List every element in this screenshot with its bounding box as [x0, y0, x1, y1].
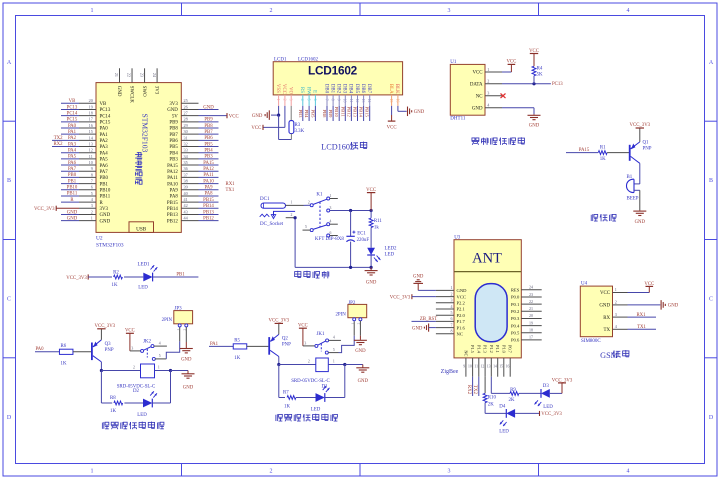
- dc socket pin 2: [286, 217, 295, 219]
- power port VCC at dht: [508, 63, 516, 65]
- svg-text:PA2: PA2: [100, 139, 109, 144]
- svg-text:P2.2: P2.2: [457, 301, 466, 306]
- svg-text:13: 13: [89, 141, 93, 146]
- svg-text:NC: NC: [476, 95, 483, 100]
- resistor R8 1K: [114, 401, 123, 405]
- svg-text:P2.0: P2.0: [457, 313, 466, 318]
- svg-text:18: 18: [529, 328, 533, 333]
- svg-text:STM32F103: STM32F103: [96, 242, 124, 248]
- wire JP3 pin2 to gnd: [185, 327, 187, 342]
- svg-text:PB0: PB0: [100, 176, 109, 181]
- wire gsm TX to TX1: [628, 328, 657, 330]
- zigbee U3 pin 11 (P1.4) bottom: [478, 358, 480, 377]
- led D3: [541, 389, 550, 398]
- svg-text:LCD1: LCD1: [274, 57, 287, 62]
- mcu U2 pin 13 (PA3) wire + net label PA3: [79, 146, 96, 148]
- wire TX2 zigbee pin11: [478, 377, 480, 396]
- relay D1 SRD-05VDC-SL-C coil: [316, 358, 329, 372]
- svg-text:11: 11: [89, 154, 93, 159]
- svg-text:PA3: PA3: [68, 142, 77, 147]
- svg-text:VCC_3V3: VCC_3V3: [34, 207, 55, 212]
- mcu U2 pin 29 (PB8) wire + net label PB8: [181, 127, 198, 129]
- svg-text:VCC: VCC: [229, 114, 239, 119]
- svg-text:23: 23: [139, 73, 144, 77]
- svg-text:PA8: PA8: [204, 192, 213, 197]
- mcu U2 pin 37 (PA11) wire + net label PA11: [181, 176, 198, 178]
- resistor R5 1K: [233, 344, 247, 349]
- mcu U2 pin 8 (PB0) wire + net label PB0: [79, 176, 96, 178]
- svg-text:PB12: PB12: [346, 107, 351, 118]
- mcu U2 pin 42 (PB14) wire + net label PB14: [181, 207, 198, 209]
- wire relay D1 pin1 to node: [328, 364, 345, 366]
- svg-text:PA15: PA15: [167, 164, 178, 169]
- svg-text:7: 7: [91, 178, 93, 183]
- svg-text:Q1: Q1: [643, 141, 650, 146]
- svg-text:10: 10: [468, 364, 472, 368]
- svg-text:PB15: PB15: [203, 198, 214, 203]
- svg-text:28: 28: [184, 117, 188, 122]
- mcu U2 pin 35 (PA15) wire + net label PA15: [181, 164, 198, 166]
- svg-text:D4: D4: [499, 404, 506, 409]
- svg-text:GND: GND: [181, 357, 192, 362]
- svg-text:DC_Socket: DC_Socket: [260, 222, 284, 227]
- svg-text:GND: GND: [599, 304, 610, 309]
- svg-text:VCC_3V3: VCC_3V3: [269, 319, 290, 324]
- svg-text:PB1: PB1: [68, 179, 77, 184]
- svg-text:PB6: PB6: [169, 139, 178, 144]
- resistor R4 5K: [532, 66, 536, 76]
- resistor R6 1K: [59, 349, 72, 354]
- svg-text:2: 2: [133, 366, 135, 370]
- svg-text:PC14: PC14: [100, 114, 111, 119]
- svg-text:PA5: PA5: [68, 155, 77, 160]
- svg-text:P0.6: P0.6: [511, 338, 520, 343]
- svg-text:GND: GND: [203, 105, 214, 110]
- svg-text:LCD1602: LCD1602: [321, 143, 354, 152]
- wire R1 to Q1 base: [607, 152, 629, 154]
- svg-text:9: 9: [337, 99, 341, 101]
- svg-text:6: 6: [91, 185, 93, 190]
- mcu U2 pin 33 (PB4) wire + net label PB4: [181, 152, 198, 154]
- gsm U4 pin 1 (VCC): [613, 292, 628, 294]
- svg-text:VCC: VCC: [387, 125, 397, 130]
- mcu U2 pin 23 (SWO) top: [144, 68, 146, 82]
- power port VCC at lcd backlight: [388, 120, 396, 122]
- resistor R11 1k: [370, 211, 372, 218]
- svg-text:PNP: PNP: [105, 348, 114, 353]
- svg-text:11: 11: [474, 364, 478, 368]
- svg-text:GND: GND: [252, 114, 263, 119]
- svg-text:13: 13: [361, 99, 365, 103]
- svg-text:PB11: PB11: [67, 192, 78, 197]
- svg-text:GND: GND: [100, 213, 111, 218]
- svg-text:PA12: PA12: [167, 170, 178, 175]
- wire Q1 collector to buzzer: [639, 163, 641, 184]
- svg-text:VCC: VCC: [366, 188, 376, 193]
- led D4: [506, 409, 515, 418]
- svg-text:1: 1: [350, 322, 354, 324]
- svg-text:4: 4: [627, 8, 630, 14]
- svg-text:GND: GND: [100, 219, 111, 224]
- svg-text:PA11: PA11: [167, 176, 178, 181]
- svg-text:16: 16: [395, 99, 399, 103]
- svg-text:PB7: PB7: [169, 133, 178, 138]
- mcu U2 pin 41 (PB15) wire + net label PB15: [181, 201, 198, 203]
- mcu U2 pin 18 (PC14) wire + net label PC14: [79, 115, 96, 117]
- svg-text:25: 25: [184, 98, 188, 103]
- svg-text:20: 20: [89, 98, 93, 103]
- mcu U2 pin 40 (PA8) wire + net label PA8: [181, 195, 198, 197]
- svg-text:1K: 1K: [234, 356, 240, 361]
- svg-text:Q3: Q3: [105, 342, 112, 347]
- svg-text:RX2: RX2: [466, 385, 471, 395]
- mcu U2 pin 11 (PA5) wire + net label PA5: [79, 158, 96, 160]
- svg-text:A: A: [709, 60, 714, 66]
- svg-text:5: 5: [451, 310, 453, 315]
- svg-text:PB11: PB11: [100, 195, 111, 200]
- resistor R9 2K: [510, 392, 519, 396]
- svg-text:PC13: PC13: [100, 108, 111, 113]
- zigbee module U3 body: [454, 240, 521, 358]
- svg-text:P2.1: P2.1: [457, 307, 466, 312]
- svg-text:21: 21: [114, 73, 119, 77]
- svg-text:A: A: [7, 60, 12, 66]
- mcu U2 pin 4 (R) wire + net label R: [79, 201, 96, 203]
- svg-text:GND: GND: [413, 275, 424, 280]
- svg-text:3: 3: [487, 91, 489, 96]
- wire gsm GND: [628, 304, 661, 306]
- svg-text:PB11: PB11: [340, 107, 345, 118]
- svg-text:2: 2: [270, 8, 273, 14]
- zigbee U3 pin 14 (P1.1) bottom: [497, 358, 499, 377]
- svg-text:PA0: PA0: [100, 127, 109, 132]
- svg-text:12: 12: [89, 148, 93, 153]
- zigbee U3 pin 22 (P0.1): [521, 303, 541, 305]
- node rail LED2: [370, 266, 373, 269]
- zigbee U3 pin 1 (GND): [436, 289, 454, 291]
- svg-text:29: 29: [184, 123, 188, 128]
- ground below JP3: [185, 347, 187, 350]
- svg-text:STM32F103: STM32F103: [140, 114, 149, 153]
- svg-text:RW: RW: [305, 87, 310, 95]
- svg-text:PC13: PC13: [67, 105, 78, 110]
- svg-text:GND: GND: [183, 385, 194, 390]
- svg-text:DC1: DC1: [260, 197, 270, 202]
- svg-text:1: 1: [615, 287, 617, 292]
- zigbee U3 pin 3 (P2.2): [436, 302, 454, 304]
- svg-text:14: 14: [493, 364, 497, 368]
- mcu U2 pin 15 (PA1) wire + net label PA1: [79, 133, 96, 135]
- svg-text:R9: R9: [510, 388, 516, 393]
- svg-text:PA4: PA4: [68, 149, 77, 154]
- svg-text:4: 4: [451, 304, 453, 309]
- lcd LCD1 pin 11 (DB4) wire + net label PB12: [348, 84, 353, 94]
- svg-text:GND: GND: [414, 110, 425, 115]
- svg-text:30: 30: [184, 129, 188, 134]
- svg-text:3: 3: [615, 312, 617, 317]
- svg-text:PB3: PB3: [298, 110, 303, 119]
- mcu U2 pin 39 (PA9) wire + net label PA9: [181, 189, 198, 191]
- svg-text:PB15: PB15: [365, 107, 370, 118]
- lcd LCD1 pin 4 (RS) wire + net label PB3: [299, 87, 304, 93]
- mcu U2 pin 2 (GND) wire + net label GND: [79, 213, 96, 215]
- svg-text:PB5: PB5: [310, 110, 315, 119]
- zigbee U3 pin 2 (VCC): [436, 296, 454, 298]
- resistor R1 1K: [598, 151, 607, 155]
- ground at dht: [533, 114, 535, 115]
- svg-text:GND: GND: [116, 86, 121, 97]
- svg-text:26: 26: [184, 104, 188, 109]
- svg-text:PA9: PA9: [170, 188, 179, 193]
- svg-text:TX1: TX1: [226, 188, 235, 193]
- svg-text:2: 2: [91, 209, 93, 214]
- wire Q2 collector down: [278, 357, 280, 365]
- dc socket pin 1: [286, 204, 304, 206]
- led LED2: [367, 248, 375, 255]
- svg-text:16: 16: [506, 364, 510, 368]
- svg-text:B1: B1: [627, 175, 633, 180]
- wire Q3 emitter to power: [100, 329, 102, 340]
- svg-text:DB2: DB2: [336, 84, 341, 94]
- svg-text:3V3: 3V3: [153, 86, 158, 95]
- led D1 indicator LED: [316, 393, 325, 402]
- svg-text:5: 5: [307, 99, 311, 101]
- svg-text:U1: U1: [450, 60, 457, 65]
- svg-text:VCC: VCC: [644, 282, 654, 287]
- zigbee U3 pin 13 (P1.2) bottom: [490, 358, 492, 377]
- ground right of relay D2: [187, 371, 189, 374]
- zigbee U3 pin 21 (P0.2): [521, 310, 541, 312]
- mcu U2 pin 25 (3V3): [181, 102, 198, 104]
- svg-text:U4: U4: [581, 282, 588, 287]
- svg-text:PA9: PA9: [204, 186, 213, 191]
- power port VCC_3V3 right of D4: [539, 411, 541, 416]
- svg-text:1: 1: [451, 285, 453, 290]
- svg-text:31: 31: [184, 135, 188, 140]
- svg-text:GND: GND: [635, 220, 646, 225]
- wire vcc to zigbee pin2: [412, 296, 436, 298]
- relay D2 SRD-05VDC-SL-C coil: [141, 364, 155, 378]
- svg-text:TX1: TX1: [637, 325, 646, 330]
- capacitor EC1 220uF: [350, 211, 352, 237]
- svg-text:2PIN: 2PIN: [162, 318, 173, 323]
- svg-text:18: 18: [89, 111, 93, 116]
- svg-text:PA5: PA5: [100, 158, 109, 163]
- svg-text:B: B: [709, 178, 713, 184]
- caption temperature humidity sensor: [472, 138, 475, 141]
- mcu U2 pin 14 (PA2) wire + net label PA2: [79, 139, 96, 141]
- svg-text:VCC_3V3: VCC_3V3: [95, 324, 116, 329]
- svg-text:2: 2: [308, 360, 310, 364]
- svg-text:GND: GND: [457, 288, 468, 293]
- svg-text:4: 4: [159, 341, 161, 345]
- svg-text:2: 2: [282, 99, 286, 101]
- svg-text:9: 9: [91, 166, 93, 171]
- svg-text:LED: LED: [138, 286, 148, 291]
- mcu U2 pin 17 (PC15) wire + net label PC15: [79, 121, 96, 123]
- svg-text:B: B: [7, 178, 11, 184]
- wire relay pin1 to node: [155, 370, 171, 372]
- zigbee U3 pin 9 (NC) bottom: [465, 358, 467, 377]
- led D2 indicator LED: [143, 399, 152, 408]
- zigbee U3 pin 4 (P2.1): [436, 308, 454, 310]
- wire zigbee pin12 to R10: [484, 377, 486, 394]
- svg-text:3: 3: [448, 8, 451, 14]
- power port VCC_3V3 at Q1: [636, 127, 644, 129]
- wire R11 to LED2: [370, 228, 372, 248]
- wire switch pin3 to vcc rail: [330, 210, 371, 212]
- svg-text:P0.7: P0.7: [508, 345, 513, 354]
- wire LED to relay pin1 node: [325, 397, 345, 399]
- wire lcd VSS to gnd node: [278, 106, 280, 115]
- svg-text:PA0: PA0: [68, 124, 77, 129]
- mcu U2 pin 38 (PA10) wire + net label PA10: [181, 183, 198, 185]
- svg-text:SWO: SWO: [141, 86, 146, 97]
- mcu U2 pin 3 (3V3) with power port VCC_3V3: [79, 207, 96, 209]
- svg-text:LED: LED: [385, 252, 395, 257]
- svg-text:DATA: DATA: [470, 83, 483, 88]
- svg-text:BLK: BLK: [394, 84, 399, 94]
- svg-text:PA2: PA2: [68, 136, 77, 141]
- svg-text:4: 4: [300, 99, 304, 101]
- lcd LCD1 pin 6 (E) wire + net label PB5: [312, 90, 317, 93]
- svg-text:22: 22: [127, 73, 132, 77]
- svg-text:PB7: PB7: [204, 130, 213, 135]
- power port VCC at gsm: [646, 285, 654, 287]
- svg-text:P0.5: P0.5: [511, 330, 520, 335]
- resistor R7 1K: [287, 396, 296, 400]
- svg-text:PC13: PC13: [552, 82, 563, 87]
- svg-text:DB7: DB7: [366, 84, 371, 94]
- svg-text:VCC_3V3: VCC_3V3: [390, 295, 411, 300]
- svg-text:PB4: PB4: [304, 110, 309, 119]
- power port VCC above rail: [367, 192, 375, 194]
- svg-text:5K: 5K: [537, 72, 543, 77]
- power port VCC above R4: [530, 53, 538, 55]
- svg-text:PNP: PNP: [282, 342, 291, 347]
- wire JK1 pin5 to JP2: [339, 336, 355, 353]
- mcu U2 STM32F103 body: [96, 83, 181, 233]
- svg-text:PB13: PB13: [203, 210, 214, 215]
- lcd LCD1 pin 2 (VCC): [281, 84, 286, 94]
- svg-text:36: 36: [184, 166, 188, 171]
- svg-text:GND: GND: [67, 210, 78, 215]
- svg-text:VO: VO: [288, 87, 293, 95]
- mcu U2 pin 44 (PB12) wire + net label PB12: [181, 220, 198, 222]
- svg-text:2: 2: [615, 300, 617, 305]
- svg-text:35: 35: [184, 160, 188, 165]
- svg-text:DB6: DB6: [360, 84, 365, 94]
- svg-text:1: 1: [333, 360, 335, 364]
- caption relay control output 1: [101, 423, 103, 429]
- svg-text:6: 6: [451, 316, 453, 321]
- svg-text:37: 37: [184, 172, 188, 177]
- svg-text:R5: R5: [234, 339, 240, 344]
- svg-text:USB: USB: [136, 226, 147, 232]
- wire LED1 to PB1: [153, 276, 199, 278]
- svg-text:PB14: PB14: [167, 207, 178, 212]
- svg-text:ANT: ANT: [472, 250, 502, 266]
- svg-text:40: 40: [184, 191, 188, 196]
- svg-text:2K: 2K: [488, 403, 494, 408]
- svg-text:3.3K: 3.3K: [295, 129, 305, 134]
- svg-text:LED2: LED2: [385, 246, 398, 251]
- svg-text:BLA: BLA: [388, 84, 393, 94]
- svg-text:3V3: 3V3: [169, 102, 178, 107]
- svg-text:VCC: VCC: [506, 60, 516, 65]
- svg-text:VB: VB: [69, 99, 76, 104]
- svg-text:VCC: VCC: [600, 291, 610, 296]
- svg-text:RX1: RX1: [636, 313, 646, 318]
- wire Q1 emitter to power: [639, 128, 641, 142]
- svg-text:PB10: PB10: [67, 186, 78, 191]
- lcd LCD1 pin 1 (VSS): [275, 84, 280, 93]
- svg-text:GND: GND: [366, 280, 377, 285]
- transistor Q3 PNP: [91, 343, 93, 361]
- svg-text:GND: GND: [529, 123, 540, 128]
- svg-text:VCC_3V3: VCC_3V3: [552, 378, 573, 383]
- mcu U2 pin 20 (VB) wire + net label VB: [79, 102, 96, 104]
- mcu U2 pin 16 (PA0) wire + net label PA0: [79, 127, 96, 129]
- svg-text:VSS: VSS: [275, 84, 280, 93]
- svg-text:GND: GND: [67, 216, 78, 221]
- mcu U2 pin 36 (PA12) wire + net label PA12: [181, 170, 198, 172]
- svg-text:PA4: PA4: [100, 151, 109, 156]
- svg-text:VCC: VCC: [472, 71, 482, 76]
- zigbee U3 pin 7 (P1.6): [436, 327, 454, 329]
- svg-text:3: 3: [451, 298, 453, 303]
- svg-text:PNP: PNP: [643, 147, 652, 152]
- node Q3 collector junction: [100, 369, 103, 372]
- power port VCC_3V3 above D3: [558, 382, 566, 384]
- svg-text:5: 5: [159, 354, 161, 358]
- sensor U1 pin 4 (GND): [485, 107, 502, 109]
- svg-text:DHT11: DHT11: [450, 116, 466, 121]
- wire Q2 emitter to power: [278, 323, 280, 334]
- svg-text:PB15: PB15: [167, 201, 178, 206]
- svg-text:RX1: RX1: [226, 182, 236, 187]
- svg-text:P1.6: P1.6: [457, 325, 466, 330]
- svg-text:TX2: TX2: [54, 136, 63, 141]
- svg-text:GND: GND: [412, 327, 423, 332]
- mcu U2 pin 34 (PB3) wire + net label PB3: [181, 158, 198, 160]
- svg-text:1: 1: [291, 201, 293, 205]
- svg-text:1: 1: [487, 67, 489, 72]
- ground right of relay D1: [362, 365, 364, 368]
- svg-text:PB9: PB9: [169, 121, 178, 126]
- wire dht GND: [502, 107, 534, 109]
- mcu U2 pin 12 (PA4) wire + net label PA4: [79, 152, 96, 154]
- svg-text:R8: R8: [110, 396, 116, 401]
- svg-text:PA1: PA1: [68, 130, 77, 135]
- svg-text:1K: 1K: [112, 283, 118, 288]
- mcu U2 pin 10 (PA6) wire + net label PA6: [79, 164, 96, 166]
- lcd LCD1 pin 12 (DB5) wire + net label PB13: [354, 84, 359, 94]
- mcu U2 pin 19 (PC13) wire + net label PC13: [79, 108, 96, 110]
- svg-text:GND: GND: [472, 106, 483, 111]
- svg-text:D: D: [709, 415, 714, 421]
- svg-text:VCC_3V3: VCC_3V3: [541, 412, 562, 417]
- lcd LCD1 pin 8 (DB1) wire + net label PB9: [329, 84, 334, 94]
- transistor Q2 PNP: [268, 337, 270, 355]
- wire R9 to D3: [519, 392, 541, 394]
- caption buzzer: [590, 215, 592, 221]
- wire R2 to LED1: [124, 276, 143, 278]
- svg-text:GND: GND: [358, 379, 369, 384]
- mcu U2 pin 5 (PB11) wire + net label PB11: [79, 195, 96, 197]
- mcu U2 pin 1 (GND) wire + net label GND: [79, 220, 96, 222]
- svg-text:17: 17: [89, 117, 93, 122]
